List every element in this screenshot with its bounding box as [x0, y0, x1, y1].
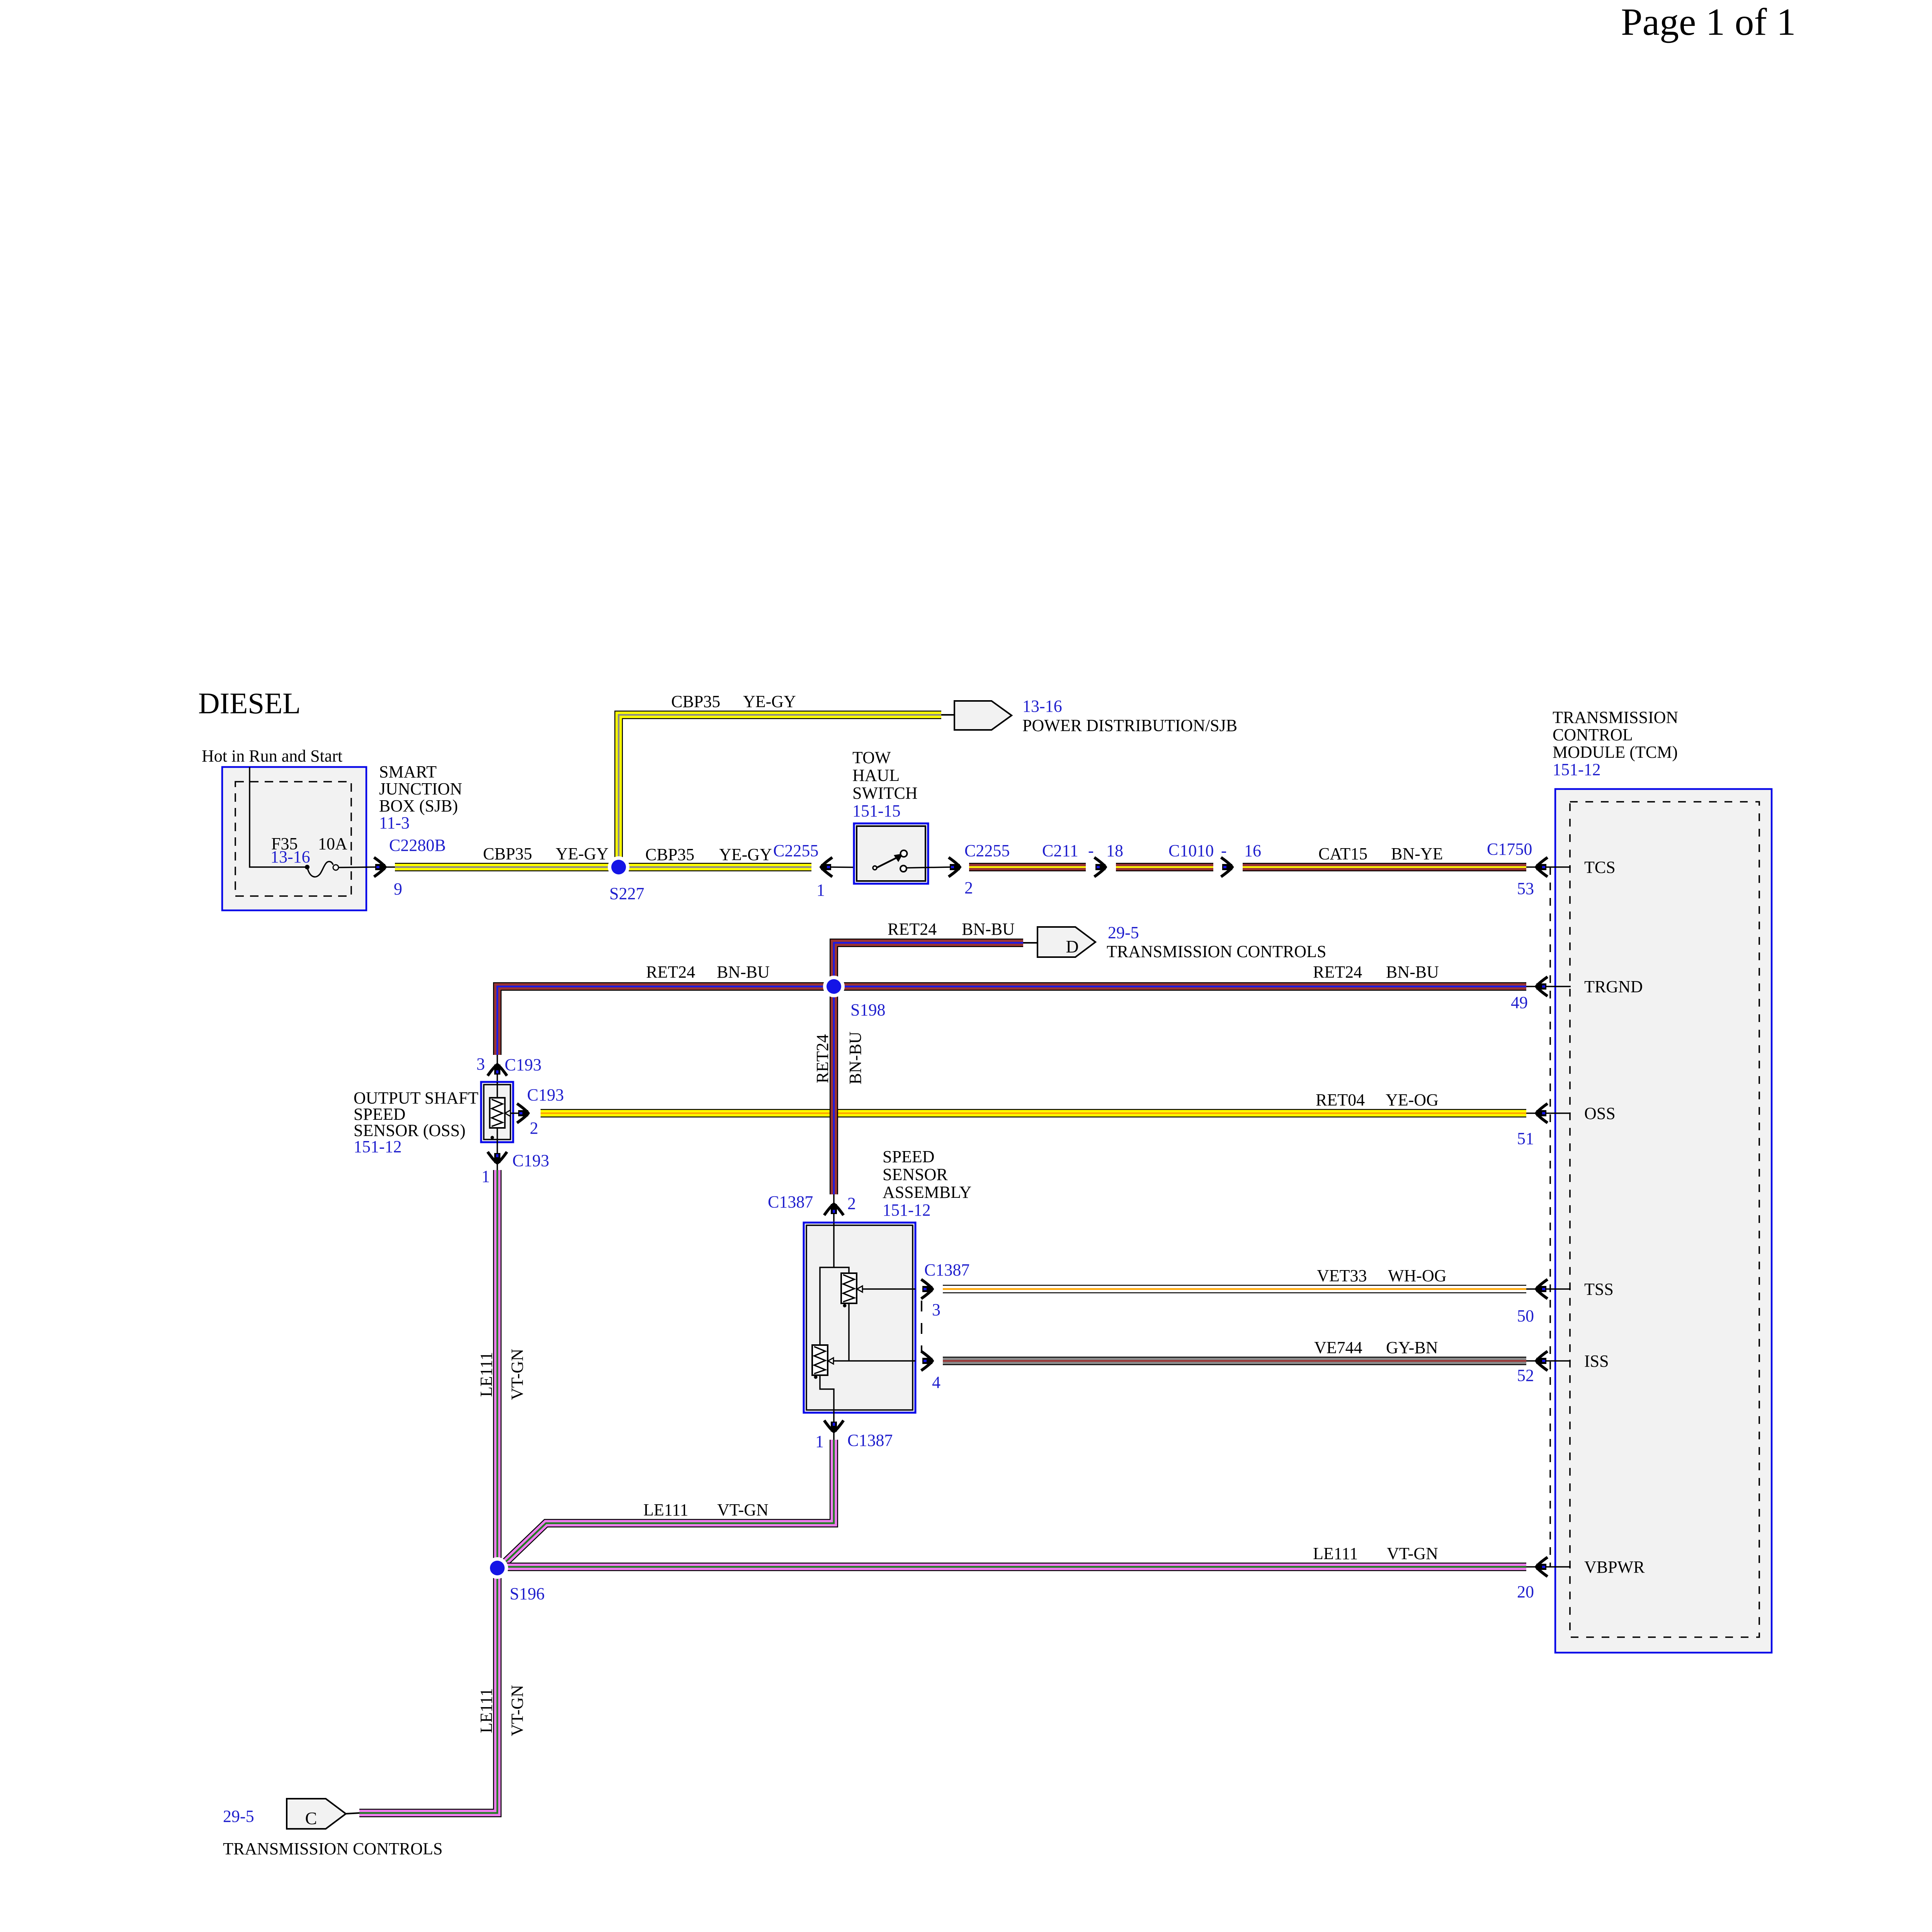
svg-text:CBP35: CBP35 — [645, 845, 694, 864]
TCM pin 52 ISS lead — [1526, 1360, 1571, 1362]
TCM pin 49 TRGND lead — [1526, 986, 1571, 987]
svg-text:13-16: 13-16 — [1022, 697, 1062, 716]
TCM pin 50 TSS lead — [1526, 1288, 1571, 1290]
svg-text:51: 51 — [1517, 1129, 1534, 1148]
svg-text:YE-GY: YE-GY — [743, 692, 796, 711]
connector C193 pin 1 arrow — [488, 1152, 507, 1163]
C1387 pins 3-4 dashed connector line — [921, 1301, 922, 1352]
transmission control module TCM box — [1555, 789, 1772, 1653]
OSS pin 3 lead — [497, 1055, 498, 1082]
svg-text:BN-YE: BN-YE — [1391, 844, 1443, 863]
svg-text:RET24: RET24 — [813, 1034, 832, 1083]
TCM pin 52 ISS arrow — [1536, 1351, 1548, 1371]
svg-text:WH-OG: WH-OG — [1388, 1266, 1447, 1285]
ISS inductor coil — [812, 1345, 828, 1375]
svg-text:13-16: 13-16 — [270, 847, 310, 866]
svg-text:YE-OG: YE-OG — [1386, 1090, 1439, 1109]
svg-text:20: 20 — [1517, 1582, 1534, 1601]
svg-text:C: C — [305, 1808, 317, 1828]
wire CBP35 YE-GY from S227 to tow haul switch — [619, 863, 811, 871]
svg-text:TRANSMISSION CONTROLS: TRANSMISSION CONTROLS — [1107, 942, 1326, 961]
svg-text:HAUL: HAUL — [852, 766, 900, 785]
svg-text:S196: S196 — [510, 1584, 544, 1603]
connector C193 pin 2 arrow — [517, 1104, 528, 1123]
svg-text:LE111: LE111 — [643, 1500, 689, 1519]
svg-text:OSS: OSS — [1584, 1104, 1616, 1123]
svg-text:9: 9 — [394, 879, 402, 898]
TCM pin 53 TCS lead — [1526, 866, 1571, 868]
svg-text:49: 49 — [1511, 993, 1528, 1012]
svg-text:RET24: RET24 — [646, 963, 695, 981]
svg-text:VT-GN: VT-GN — [508, 1685, 527, 1736]
connector C1387 pin 4 arrow — [921, 1351, 932, 1371]
connector flag D to transmission controls — [1037, 927, 1095, 957]
SJB internal feed wire — [250, 767, 307, 867]
splice S196 — [486, 1557, 508, 1579]
SJB inner dashed box — [235, 782, 351, 896]
svg-text:151-12: 151-12 — [883, 1201, 931, 1219]
TCM pin 49 TRGND arrow — [1536, 977, 1548, 996]
svg-text:SWITCH: SWITCH — [852, 784, 918, 803]
svg-text:SENSOR: SENSOR — [883, 1165, 948, 1184]
svg-text:TRGND: TRGND — [1584, 977, 1643, 996]
svg-text:C211: C211 — [1042, 841, 1078, 860]
TCM pin 53 TCS arrow — [1536, 857, 1548, 877]
svg-text:C1750: C1750 — [1487, 840, 1532, 859]
svg-text:POWER DISTRIBUTION/SJB: POWER DISTRIBUTION/SJB — [1022, 716, 1237, 735]
tow haul switch pin 1 lead — [831, 867, 872, 867]
svg-text:RET24: RET24 — [1313, 963, 1362, 981]
svg-text:TRANSMISSION CONTROLS: TRANSMISSION CONTROLS — [223, 1839, 442, 1858]
smart junction box SJB outline — [222, 767, 366, 910]
connector C2255 pin 1 arrow — [821, 857, 832, 877]
svg-text:DIESEL: DIESEL — [198, 687, 301, 720]
svg-text:-: - — [1088, 841, 1094, 860]
svg-text:2: 2 — [847, 1194, 856, 1213]
svg-text:C1010: C1010 — [1168, 841, 1214, 860]
wire LE111 VT-GN S196 down to flag C — [359, 1568, 497, 1813]
svg-text:2: 2 — [530, 1119, 538, 1138]
TCM pin 51 OSS lead — [1526, 1112, 1571, 1114]
svg-text:BN-BU: BN-BU — [1386, 963, 1439, 981]
splice S198 — [823, 976, 845, 997]
svg-text:TCS: TCS — [1584, 858, 1616, 877]
TCM pin 20 VBPWR lead — [1526, 1566, 1571, 1568]
connector C2280B pin 9 arrow — [374, 857, 385, 877]
OSS pin 1 lead — [497, 1142, 498, 1170]
svg-text:VT-GN: VT-GN — [717, 1500, 769, 1519]
svg-text:C2255: C2255 — [773, 841, 818, 860]
svg-text:C193: C193 — [505, 1055, 541, 1074]
svg-text:C193: C193 — [512, 1151, 549, 1170]
connector C1387 pin 3 arrow — [921, 1279, 932, 1299]
wire RET24 BN-BU S198 down to C1387 pin 2 — [830, 986, 838, 1194]
svg-text:10A: 10A — [318, 834, 347, 853]
svg-text:151-15: 151-15 — [852, 801, 901, 820]
svg-text:53: 53 — [1517, 879, 1534, 898]
connector C2280B pin 9 line — [372, 866, 395, 868]
wire CAT15 BN-YE C1010 to TCM TCS — [1243, 863, 1526, 871]
svg-text:16: 16 — [1244, 841, 1261, 860]
connector C1387 pin 2 arrow — [824, 1204, 844, 1215]
svg-text:29-5: 29-5 — [1108, 923, 1139, 942]
tow haul switch pin 2 lead — [906, 867, 951, 868]
svg-text:C2255: C2255 — [964, 841, 1010, 860]
wire CAT15 BN-YE C211 to C1010 — [1116, 863, 1213, 871]
svg-text:VT-GN: VT-GN — [1387, 1544, 1438, 1563]
svg-text:RET24: RET24 — [888, 920, 937, 939]
svg-text:ASSEMBLY: ASSEMBLY — [883, 1183, 971, 1202]
svg-text:151-12: 151-12 — [354, 1137, 402, 1156]
C1387 pin 1 lead — [833, 1413, 835, 1440]
svg-text:CAT15: CAT15 — [1318, 844, 1367, 863]
svg-text:C1387: C1387 — [924, 1260, 969, 1279]
svg-text:LE111: LE111 — [477, 1352, 496, 1397]
wire VE744 GY-BN ISS to TCM — [943, 1357, 1526, 1365]
svg-text:1: 1 — [815, 1432, 824, 1451]
svg-text:11-3: 11-3 — [379, 813, 410, 832]
speed sensor assembly box — [804, 1223, 915, 1413]
splice S227 — [608, 856, 629, 878]
wire LE111 VT-GN S196 to TCM VBPWR — [497, 1563, 1526, 1571]
wire RET04 YE-OG OSS to TCM — [541, 1109, 1526, 1117]
svg-text:BN-BU: BN-BU — [717, 963, 770, 981]
wire CAT15 BN-YE switch to C211 — [969, 863, 1086, 871]
svg-text:1: 1 — [481, 1167, 490, 1186]
flag C lead — [345, 1813, 359, 1814]
svg-text:Page 1 of 1: Page 1 of 1 — [1621, 0, 1796, 43]
svg-text:SMART: SMART — [379, 762, 437, 781]
speed sensor assembly internal wiring — [820, 1223, 834, 1345]
svg-text:BOX (SJB): BOX (SJB) — [379, 796, 458, 815]
svg-text:2: 2 — [964, 878, 973, 897]
svg-text:TOW: TOW — [852, 748, 891, 767]
tow haul switch box — [854, 823, 928, 884]
C1387 pin 2 lead — [833, 1194, 835, 1223]
svg-text:ISS: ISS — [1584, 1352, 1609, 1371]
svg-text:29-5: 29-5 — [223, 1807, 254, 1826]
svg-text:VBPWR: VBPWR — [1584, 1558, 1645, 1577]
svg-text:LE111: LE111 — [1313, 1544, 1358, 1563]
svg-text:3: 3 — [932, 1300, 940, 1319]
svg-text:C1387: C1387 — [768, 1192, 813, 1211]
svg-text:S227: S227 — [609, 884, 644, 903]
svg-text:C1387: C1387 — [847, 1431, 893, 1450]
svg-text:CBP35: CBP35 — [671, 692, 720, 711]
connector C193 pin 3 arrow — [488, 1065, 507, 1076]
output shaft speed sensor OSS box — [481, 1082, 513, 1142]
OSS inductor coil — [490, 1098, 505, 1128]
svg-text:RET04: RET04 — [1316, 1090, 1365, 1109]
OSS coil tap arrow — [505, 1110, 510, 1116]
svg-text:TRANSMISSION: TRANSMISSION — [1553, 708, 1678, 727]
svg-text:50: 50 — [1517, 1306, 1534, 1325]
connector flag C to transmission controls — [287, 1799, 346, 1829]
svg-text:18: 18 — [1106, 841, 1123, 860]
svg-text:VT-GN: VT-GN — [508, 1349, 527, 1400]
svg-text:YE-GY: YE-GY — [719, 845, 772, 864]
power distribution flag lead — [941, 714, 956, 716]
TCM pin 51 OSS arrow — [1536, 1104, 1548, 1123]
TSS coil tap arrow and lead — [857, 1286, 862, 1292]
svg-text:BN-BU: BN-BU — [962, 920, 1015, 939]
svg-text:1: 1 — [816, 881, 825, 900]
wire LE111 VT-GN OSS pin1 down to S196 — [493, 1170, 502, 1568]
svg-text:VE744: VE744 — [1314, 1338, 1362, 1357]
wire CBP35 YE-GY up to power distribution flag — [619, 715, 941, 867]
connector C2255 pin 2 arrow — [949, 857, 960, 877]
TCM pin 50 TSS arrow — [1536, 1279, 1548, 1299]
wire VET33 WH-OG TSS to TCM — [943, 1285, 1526, 1293]
svg-text:4: 4 — [932, 1373, 940, 1392]
fuse F35 10A — [305, 865, 310, 869]
wire CBP35 YE-GY from SJB to S227 — [395, 863, 619, 871]
TCM inner dashed box — [1570, 802, 1759, 1637]
inline connector C1010 pin 16 arrow — [1221, 857, 1232, 877]
svg-text:C2280B: C2280B — [389, 836, 446, 855]
svg-text:151-12: 151-12 — [1553, 760, 1601, 779]
svg-text:S198: S198 — [850, 1000, 885, 1019]
svg-text:VET33: VET33 — [1317, 1266, 1367, 1285]
svg-text:BN-BU: BN-BU — [846, 1032, 865, 1085]
ISS coil tap arrow and lead — [828, 1358, 833, 1364]
TSS inductor coil — [841, 1273, 857, 1303]
wire RET24 BN-BU branch to flag D — [834, 943, 1023, 986]
inline connector C211 pin 18 arrow — [1094, 857, 1105, 877]
svg-text:D: D — [1066, 937, 1078, 956]
OSS internal line — [497, 1082, 498, 1142]
svg-text:CBP35: CBP35 — [483, 844, 532, 863]
svg-text:JUNCTION: JUNCTION — [379, 779, 462, 798]
connector flag to power distribution — [954, 701, 1012, 730]
flag D lead — [1023, 942, 1039, 944]
svg-text:LE111: LE111 — [477, 1688, 496, 1733]
TCM connector C1750 dashed line — [1549, 867, 1551, 1567]
wire LE111 VT-GN C1387 pin1 down and left to S196 — [497, 1440, 834, 1570]
svg-text:C193: C193 — [527, 1085, 564, 1104]
svg-text:3: 3 — [476, 1054, 485, 1073]
connector C1387 pin 1 arrow — [824, 1420, 844, 1432]
svg-text:Hot in Run and Start: Hot in Run and Start — [202, 747, 342, 765]
svg-text:52: 52 — [1517, 1366, 1534, 1385]
svg-text:CONTROL: CONTROL — [1553, 725, 1633, 744]
svg-text:GY-BN: GY-BN — [1386, 1338, 1438, 1357]
svg-text:MODULE (TCM): MODULE (TCM) — [1553, 743, 1678, 762]
svg-text:SPEED: SPEED — [883, 1147, 934, 1166]
svg-text:TSS: TSS — [1584, 1280, 1614, 1299]
svg-text:YE-GY: YE-GY — [556, 844, 609, 863]
tow haul switch blade and contacts — [876, 857, 899, 868]
TCM pin 20 VBPWR arrow — [1536, 1557, 1548, 1577]
wire RET24 BN-BU main TRGND run — [497, 986, 1526, 1055]
